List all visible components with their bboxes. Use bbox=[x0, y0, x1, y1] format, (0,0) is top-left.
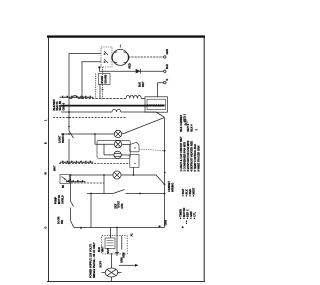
start relay (dashed box) bbox=[101, 47, 112, 67]
wires capsule right bbox=[122, 143, 130, 145]
wire relay to left drop 2 bbox=[82, 62, 101, 96]
heater top terminal wire bbox=[158, 83, 164, 97]
svg-text:G: G bbox=[45, 227, 48, 229]
diagonal wire upper bbox=[125, 118, 165, 134]
plug right prong bbox=[121, 236, 123, 250]
svg-text:6 WIRE TRACER GRN: 6 WIRE TRACER GRN bbox=[198, 145, 201, 171]
ground symbol right bbox=[185, 119, 187, 122]
node bus-rail5 junction bbox=[68, 163, 70, 165]
bottom rail bbox=[74, 227, 165, 229]
overload protector box bbox=[98, 74, 110, 85]
node A junction bbox=[98, 66, 100, 68]
svg-text:GRN 6: GRN 6 bbox=[62, 102, 65, 110]
vertical bus right bbox=[164, 118, 166, 228]
terminal T3 bbox=[164, 81, 166, 83]
thermostat switch S2 bbox=[87, 193, 113, 195]
svg-text:BLK 4: BLK 4 bbox=[191, 124, 194, 132]
svg-text:GRN: GRN bbox=[121, 257, 124, 263]
svg-text:= NEUT: = NEUT bbox=[193, 187, 196, 196]
rail 3 with coil L2 bbox=[61, 111, 112, 113]
rail 6 dashed bbox=[71, 182, 104, 184]
plug dashed box bbox=[102, 236, 128, 254]
wire left switch drop bbox=[70, 175, 72, 201]
svg-text:SW: SW bbox=[61, 219, 64, 224]
defrost thermostat wire bbox=[103, 175, 105, 194]
rail 5 dashed bbox=[59, 163, 130, 165]
svg-text:BLK: BLK bbox=[166, 64, 169, 69]
svg-text:SWITCH: SWITCH bbox=[62, 133, 65, 143]
svg-text:GRN: GRN bbox=[166, 49, 169, 55]
rail 2 (thick neutral bus) bbox=[61, 105, 165, 107]
node D bbox=[80, 227, 82, 229]
ground symbol bbox=[116, 249, 118, 253]
rail 1 (top bus with jump) bbox=[69, 98, 72, 100]
pump component bbox=[60, 175, 70, 184]
defrost heater box bbox=[145, 97, 168, 112]
svg-text:RCPT: RCPT bbox=[100, 260, 103, 267]
svg-text:= =: = = bbox=[186, 220, 189, 224]
node C bbox=[103, 174, 105, 176]
fan motor M4 bbox=[113, 171, 121, 179]
power cord drop wires bbox=[110, 228, 112, 239]
svg-text:GUARD: GUARD bbox=[104, 74, 107, 83]
temp control switch T1 bbox=[130, 142, 139, 152]
terminal T1 bbox=[164, 56, 166, 58]
terminal T2 bbox=[164, 70, 166, 72]
svg-text:POWER SUPPLY: 115 VOLTS: POWER SUPPLY: 115 VOLTS bbox=[90, 244, 93, 278]
node bus-rail3 junction bbox=[68, 111, 70, 113]
wire diagonal lower bbox=[121, 175, 164, 184]
wire relay right drop bbox=[102, 67, 104, 99]
wire row motor 4 bbox=[70, 174, 113, 176]
wire mid drop bbox=[90, 194, 92, 228]
svg-text:WHT: WHT bbox=[54, 165, 57, 171]
svg-text:GRN: GRN bbox=[122, 252, 125, 258]
grn arrow bbox=[119, 264, 135, 266]
svg-text:RED: RED bbox=[129, 63, 132, 68]
wire T2 to row4 bbox=[133, 167, 135, 175]
wire motor to diagonal bbox=[122, 133, 126, 134]
wire box to rail bbox=[99, 84, 101, 98]
node bus-rail2 junction bbox=[68, 105, 70, 107]
svg-text:WHT: WHT bbox=[102, 246, 105, 252]
wire with diode D1 bbox=[99, 67, 163, 71]
temp control switch T2 bbox=[130, 155, 139, 168]
node B bbox=[94, 133, 96, 135]
wire feed capsule bbox=[94, 134, 96, 144]
evap fan motor M2 bbox=[114, 130, 121, 137]
dashed cap wire bbox=[95, 74, 97, 99]
rail 4 dashed bbox=[53, 117, 126, 119]
coil L1 bbox=[126, 95, 141, 98]
wire T1 to bus (dashed) bbox=[139, 149, 165, 151]
node bus-branchA junction bbox=[68, 133, 70, 135]
svg-text:R: R bbox=[166, 79, 169, 81]
border top thick edge bbox=[47, 35, 205, 37]
svg-text:-- 3 --- 4 --- 3 --- 4 --- 3 -: -- 3 --- 4 --- 3 --- 4 --- 3 --- 4 --- 3… bbox=[60, 162, 93, 164]
svg-text:5B: 5B bbox=[62, 185, 65, 188]
svg-text:B: B bbox=[45, 142, 48, 144]
wire branch A bbox=[61, 133, 114, 135]
wire compressor to right terminal bbox=[128, 56, 163, 58]
svg-text:WHT: WHT bbox=[107, 247, 110, 253]
svg-text:HTR: HTR bbox=[121, 203, 124, 208]
svg-text:WIRING: WIRING bbox=[172, 183, 175, 192]
lamp LP1 bbox=[114, 151, 121, 158]
condenser fan motor M3 bbox=[114, 141, 121, 148]
mullion heater capsule bbox=[97, 140, 130, 158]
svg-text:SINGLE PHASE ~ 60 HZ ONLY: SINGLE PHASE ~ 60 HZ ONLY bbox=[93, 242, 96, 278]
border frame bbox=[48, 37, 50, 283]
door switch S1 bbox=[69, 131, 74, 138]
svg-text:OVRLD: OVRLD bbox=[62, 195, 65, 204]
compressor motor M1 bbox=[112, 49, 128, 65]
svg-text:-- 1 --- 2 --- 1 --- 2 --- 1 -: -- 1 --- 2 --- 1 --- 2 --- 1 --- 2 --- 1… bbox=[60, 96, 93, 98]
svg-text:-- 5 --- 6 --- 5 --- 6 --: -- 5 --- 6 --- 5 --- 6 -- bbox=[66, 181, 85, 183]
wire relay to left drop 1 bbox=[69, 54, 101, 132]
svg-text:GRN: GRN bbox=[165, 220, 168, 226]
svg-text:WHT: WHT bbox=[142, 81, 145, 87]
svg-text:= CTL: = CTL bbox=[194, 212, 197, 219]
lamp bulb bbox=[105, 268, 118, 277]
